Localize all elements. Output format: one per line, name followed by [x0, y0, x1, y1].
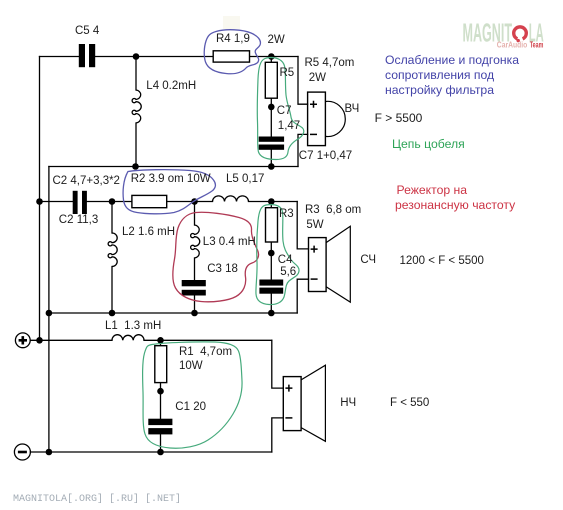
highlight loop red around L3 C3 (notch): [173, 212, 259, 302]
label C7 designator: [277, 105, 292, 118]
label L4 value: [146, 80, 196, 93]
wire tweeter minus to rail1: [298, 134, 308, 166]
label midrange band: [400, 255, 484, 268]
label C7 total value: [299, 150, 352, 163]
label C1 value: [175, 401, 206, 414]
node junction 16: [157, 337, 164, 344]
label annotation notch line2: [395, 199, 515, 212]
wire L4 upper lead: [135, 57, 137, 91]
wire down to tweeter plus: [298, 57, 308, 105]
label annotation blue line1: [385, 54, 519, 67]
node junction 17: [157, 388, 164, 395]
wire C3 to rail3 lead: [194, 296, 196, 314]
node junction 15: [36, 337, 43, 344]
highlight loop green around R1 C1: [143, 342, 242, 448]
capacitor C5: [79, 44, 95, 67]
wire L5 to corner: [249, 201, 298, 203]
inductor L2: [108, 233, 117, 267]
label R5 value: [305, 57, 355, 70]
capacitor C3: [182, 280, 206, 296]
label annotation blue line2: [385, 69, 494, 82]
wire R3 to C4 lead: [270, 242, 272, 280]
wire rail3 horizontal: [49, 312, 297, 314]
label R3 value: [305, 204, 361, 217]
wire C4 to rail3 lead: [270, 294, 272, 313]
logo MAGNITOLA watermark: [463, 17, 544, 49]
terminal minus input: [14, 444, 30, 460]
resistor R1: [155, 346, 167, 383]
capacitor C7: [259, 137, 284, 150]
label C5 value: [75, 25, 99, 38]
node junction 5: [268, 163, 275, 170]
node junction 9: [268, 198, 275, 205]
wire down to woofer plus: [272, 340, 284, 388]
wire C7 to rail1 lead: [270, 150, 272, 167]
resistor R2: [132, 195, 167, 207]
speaker СЧ midrange: [309, 226, 351, 302]
wire L3 to C3 lead: [194, 258, 196, 280]
label R2 value: [131, 173, 211, 186]
wire woofer minus to minus line: [272, 418, 284, 452]
node junction 6: [36, 198, 43, 205]
label C2 alt value: [59, 214, 98, 227]
node junction 13: [191, 310, 198, 317]
wire left rail vertical: [39, 57, 41, 341]
label R5 wattage: [309, 72, 326, 85]
label R4 wattage: [268, 34, 285, 47]
label tweeter name: [345, 103, 360, 116]
wire top rail C5 to R4: [95, 56, 213, 58]
wire L2 lower lead: [111, 267, 113, 314]
wire R5 to C7 lead: [270, 98, 272, 136]
wire C2 to R2: [87, 201, 132, 203]
wire L1 to corner: [144, 339, 272, 341]
wire L4 lower lead: [135, 123, 137, 167]
inductor L5: [213, 196, 249, 202]
label C3 value: [207, 263, 238, 276]
svg-text:Team: Team: [530, 40, 544, 49]
label R1 wattage: [179, 360, 203, 373]
wire rail1 horizontal (tweeter return): [49, 166, 298, 168]
label C4 designator: [278, 254, 293, 267]
wire plus terminal to L1: [30, 339, 112, 341]
wire midrange minus to rail3: [297, 279, 308, 313]
label L2 value: [122, 226, 175, 239]
label C2 value: [53, 175, 120, 188]
inductor L1: [112, 335, 144, 341]
node junction 2: [268, 53, 275, 60]
wire R1 top lead: [160, 340, 162, 345]
label L3 value: [203, 236, 256, 249]
capacitor C2: [73, 191, 87, 214]
wire rail2 left to C2: [40, 201, 73, 203]
inductor L4: [132, 90, 141, 123]
label woofer name: [340, 397, 356, 410]
highlight loop blue around R2: [123, 170, 215, 214]
node junction 11: [46, 310, 53, 317]
wire minus line: [30, 451, 271, 453]
wire C1 to minus line lead: [160, 434, 162, 452]
label tweeter band: [375, 112, 423, 125]
label C4 value: [280, 266, 296, 279]
node junction 8: [191, 198, 198, 205]
wire R1 to C1 lead: [160, 383, 162, 419]
label R4 value: [216, 33, 250, 46]
label footer site text: [13, 494, 181, 505]
speaker НЧ woofer: [283, 365, 325, 441]
wire L3 upper lead: [194, 202, 196, 226]
resistor R5: [265, 62, 277, 98]
highlight loop blue around R4: [204, 30, 260, 74]
node junction 12: [109, 310, 116, 317]
label R3 wattage: [306, 219, 323, 232]
resistor R3: [266, 208, 278, 242]
label R1 value: [179, 346, 232, 359]
label annotation blue line3: [385, 84, 494, 97]
node junction 10: [268, 250, 275, 257]
wire top rail R4 to corner: [250, 56, 299, 58]
capacitor C4: [259, 280, 283, 294]
wire second vertical rail: [48, 167, 50, 453]
node junction 1: [133, 53, 140, 60]
highlight loop green around R5 C7 (zobel): [257, 58, 304, 160]
wire R3 top lead: [270, 202, 272, 208]
node junction 18: [46, 449, 53, 456]
terminal plus input: [15, 333, 30, 348]
wire R5 top lead: [270, 57, 272, 63]
svg-text:CarAudio: CarAudio: [497, 40, 528, 49]
highlight loop green around R3 C4: [256, 205, 299, 305]
wire L2 upper lead: [111, 202, 113, 234]
capacitor C1: [148, 419, 172, 435]
label woofer band: [390, 397, 429, 410]
node junction 4: [132, 163, 139, 170]
label L1 value: [105, 320, 161, 333]
wire top rail left segment: [40, 56, 80, 58]
wire down to midrange plus: [297, 202, 308, 249]
node junction 3: [268, 104, 275, 111]
speaker BЧ tweeter U-VCH: [308, 92, 346, 146]
label C7 value: [278, 120, 300, 133]
node junction 14: [268, 310, 275, 317]
inductor L3: [191, 225, 200, 258]
label annotation zobel: [392, 138, 465, 151]
faint scan artifact patch: [223, 16, 240, 29]
node junction 19: [157, 449, 164, 456]
label R3 designator: [279, 208, 294, 221]
resistor R4: [213, 51, 249, 62]
node junction 7: [109, 198, 116, 205]
label annotation notch line1: [397, 184, 468, 197]
label midrange name: [360, 254, 376, 267]
label L5 value: [226, 173, 264, 186]
label R5 designator: [280, 67, 295, 80]
wire R2 to L5: [167, 201, 213, 203]
